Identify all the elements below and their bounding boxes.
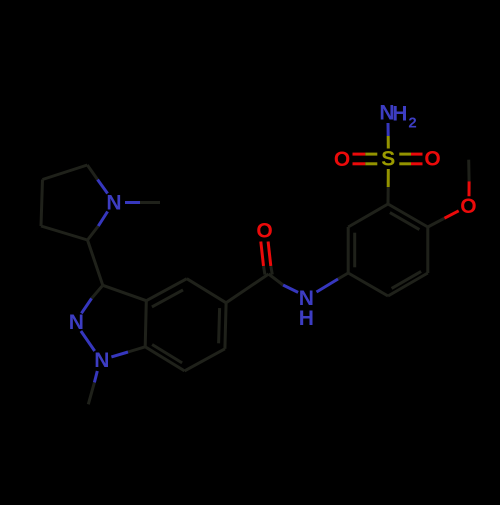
wire OMe-CH3 carbon half (467, 160, 470, 182)
svg-text:N: N (94, 349, 109, 372)
wire pyrazole N2=C3 N half (81, 298, 91, 313)
wire indazole benzo C3a=C4 inner (152, 290, 183, 307)
wire indazole benzo C5-C6 (225, 303, 226, 349)
wire indazole benzo C7-C7a (145, 347, 184, 371)
svg-text:O: O (256, 220, 272, 243)
wire N1-CH3 carbon half (88, 383, 94, 405)
wire C1-S carbon half (387, 187, 390, 204)
wire pyrrolidine C5p-Np N half (98, 212, 107, 227)
wire benzene C1=C2 inner (390, 213, 420, 230)
wire indazole benzo C3a-C4 (146, 279, 187, 301)
wire pyrazole N1-N2 (81, 331, 95, 351)
svg-text:H: H (299, 307, 314, 330)
svg-text:O: O (334, 148, 350, 171)
wire C7=O left line red (261, 242, 264, 267)
wire N1-CH3 N half (94, 371, 97, 383)
wire S=O right upper, O half (411, 153, 423, 156)
wire OMe-CH3 O half (468, 181, 471, 196)
wire C5p-C3 link (88, 240, 103, 285)
wire pyrrolidine Np-C2p N half (98, 180, 108, 194)
wire pyrazole C7a-N1 N half (111, 352, 128, 357)
wire S=O right lower, S half (399, 162, 411, 165)
wire pyrrolidine Np-C2p carbon half (87, 165, 97, 180)
wire C7-C5benzo (226, 274, 269, 303)
wire pyrrolidine C2p-C3p (43, 165, 88, 180)
wire Np-CH3 carbon half (140, 201, 160, 204)
wire C7=O right line carbon (271, 266, 273, 275)
wire indazole fusion C7a-C3a (145, 301, 146, 347)
svg-text:O: O (424, 148, 440, 171)
wire C2-OMe O half (445, 211, 459, 218)
svg-text:N: N (69, 311, 84, 334)
wire benzene C1-C2 (388, 204, 428, 227)
svg-text:N: N (106, 192, 121, 215)
wire indazole benzo C6-C7 (185, 349, 225, 371)
wire S=O right lower, O half (411, 162, 423, 165)
wire S-NH2, N half (387, 123, 390, 136)
wire Namide-C7 N half (283, 285, 298, 292)
wire Namide-C7 carbon half (269, 274, 283, 285)
svg-text:O: O (460, 195, 476, 218)
wire S=O left lower, S half (365, 162, 377, 165)
wire benzene C4-C5 (348, 273, 388, 296)
wire benzene C3-C4 (388, 273, 428, 296)
wire C5-Namide N half (317, 279, 339, 292)
wire Np-CH3 N half (125, 201, 140, 204)
wire S-NH2, S half (387, 136, 390, 149)
wire benzene C5=C6 inner (353, 233, 356, 268)
svg-text:2: 2 (408, 115, 416, 132)
wire S=O right upper, S half (399, 153, 411, 156)
wire benzene C2-C3 (426, 227, 429, 273)
wire S=O left lower, O half (353, 162, 366, 165)
wire benzene C5-C6 (347, 227, 350, 273)
wire S=O left upper, S half (365, 153, 377, 156)
wire pyrrolidine C4p-C5p (41, 226, 88, 240)
wire pyrazole C7a-N1 carbon half (128, 347, 145, 352)
wire C7=O left line carbon (264, 266, 265, 275)
wire indazole benzo C5=C6 inner (219, 308, 220, 343)
wire pyrrolidine C3p-C4p (41, 180, 43, 227)
wire pyrrolidine C5p-Np carbon half (88, 226, 99, 240)
wire C7=O right line red (268, 242, 271, 267)
wire C1-S sulfur half (387, 169, 390, 187)
svg-text:H: H (392, 103, 407, 126)
svg-text:S: S (381, 148, 395, 171)
wire pyrazole N2=C3 carbon half (92, 285, 103, 298)
wire indazole benzo C7=C7a inner (152, 345, 182, 363)
wire benzene C6-C1 (348, 204, 388, 227)
wire C5-Namide carbon half (338, 273, 348, 279)
wire pyrazole C3-C3a (103, 285, 147, 300)
wire S=O left upper, O half (353, 153, 366, 156)
wire C2-OMe carbon half (428, 218, 445, 227)
wire benzene C3=C4 inner (392, 271, 422, 288)
wire indazole benzo C4-C5 (187, 279, 226, 303)
